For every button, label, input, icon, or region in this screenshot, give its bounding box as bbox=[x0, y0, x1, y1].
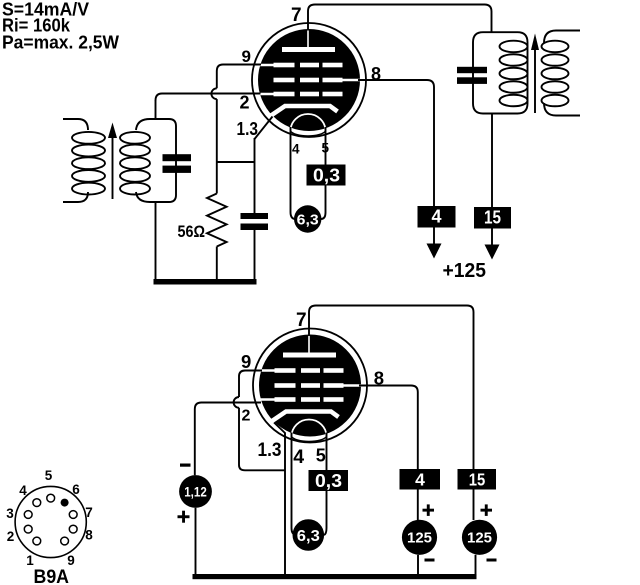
svg-text:2: 2 bbox=[242, 407, 251, 424]
wire hop over pin2 wire bbox=[211, 88, 216, 99]
svg-text:5: 5 bbox=[316, 446, 326, 466]
tube V1 anode (plate) and lead bbox=[307, 29, 309, 49]
wire grid tap to tank top bbox=[155, 100, 157, 120]
svg-text:Pa=max. 2,5W: Pa=max. 2,5W bbox=[2, 32, 119, 52]
minus sign battery 125 left bbox=[425, 559, 435, 562]
svg-text:15: 15 bbox=[469, 469, 486, 489]
B9A pin 1 circle bbox=[33, 537, 41, 545]
output tank capacitor bbox=[457, 67, 487, 73]
output secondary leads bbox=[544, 31, 580, 44]
battery circle 6,3 heater bbox=[294, 205, 321, 232]
svg-text:4: 4 bbox=[431, 207, 441, 227]
voltage box 4V screen bbox=[418, 206, 456, 228]
output secondary coil bbox=[542, 41, 569, 53]
B9A pin 8 circle bbox=[69, 525, 77, 533]
battery circle 1,12 grid bias bbox=[179, 475, 212, 508]
resistor 56 ohm bbox=[207, 194, 227, 247]
B9A pin 2 circle bbox=[24, 525, 32, 533]
svg-text:9: 9 bbox=[241, 351, 251, 372]
input transformer primary coil bbox=[63, 119, 88, 130]
B9A base outline circle bbox=[15, 486, 86, 557]
input tank capacitor bbox=[163, 154, 192, 161]
voltage box 0,3 bottom bbox=[309, 470, 349, 491]
output coupling arrow bbox=[534, 49, 536, 113]
ground rail top circuit bbox=[154, 279, 257, 285]
pentode tube V2 envelope bbox=[253, 329, 367, 443]
pentode tube V1 envelope bbox=[252, 23, 366, 137]
wire pin7 anode to output tank bbox=[308, 5, 492, 34]
svg-text:9: 9 bbox=[67, 553, 75, 568]
tube V2 anode (plate) and lead bbox=[308, 335, 310, 355]
wire hop bottom bbox=[234, 397, 239, 408]
tube V1 heater filament bbox=[291, 114, 326, 131]
wire pin8 screen bottom bbox=[359, 386, 418, 470]
minus sign battery 1,12 bbox=[180, 464, 191, 467]
wire pin2 grid bottom to battery 1,12 bbox=[195, 403, 261, 476]
svg-text:8: 8 bbox=[85, 528, 93, 543]
arrow to +125 left bbox=[433, 228, 435, 247]
output tank coil bbox=[500, 41, 528, 53]
svg-text:3: 3 bbox=[6, 506, 14, 521]
voltage box 0,3 heater bbox=[307, 165, 346, 186]
tube V2 heater filament bbox=[292, 420, 327, 437]
wire pin5 heater bbox=[321, 127, 326, 219]
svg-text:7: 7 bbox=[291, 5, 302, 26]
input tank secondary coil bbox=[120, 132, 150, 144]
svg-text:1: 1 bbox=[26, 553, 34, 568]
junction wire cathode to resistor top bbox=[216, 161, 255, 163]
svg-text:125: 125 bbox=[407, 531, 432, 547]
wire pin7 anode bottom bbox=[309, 306, 474, 470]
svg-text:0,3: 0,3 bbox=[313, 165, 340, 185]
svg-text:6,3: 6,3 bbox=[297, 528, 320, 545]
wire pin4 heater bottom bbox=[292, 433, 297, 536]
plus sign battery 125 right bbox=[481, 509, 493, 512]
svg-text:2: 2 bbox=[240, 93, 250, 113]
svg-text:125: 125 bbox=[467, 531, 492, 547]
tube V1 grids g1 g2 g3 (dashed rows) bbox=[274, 63, 295, 68]
wire pin4 heater bbox=[291, 127, 296, 219]
svg-text:6,3: 6,3 bbox=[297, 211, 319, 228]
wire pin2 grid to input tank bbox=[156, 94, 261, 101]
wire pin1.3 cathode bottom bbox=[274, 423, 285, 577]
B9A pin 9 circle bbox=[61, 537, 69, 545]
svg-text:6: 6 bbox=[72, 482, 80, 497]
svg-text:+125: +125 bbox=[443, 260, 487, 282]
wire pin9 grid3 to ground bbox=[217, 65, 261, 89]
plus sign battery 1,12 bbox=[178, 515, 190, 518]
wire tank bottom to ground rail bbox=[155, 202, 157, 280]
B9A pin 3 circle bbox=[24, 511, 32, 519]
svg-text:4: 4 bbox=[293, 446, 304, 468]
B9A pin 5 circle bbox=[47, 494, 55, 502]
tube V2 cathode bbox=[272, 412, 339, 422]
input transformer coupling arrow bbox=[112, 136, 114, 199]
input tank circuit loop bbox=[136, 119, 176, 202]
voltage box 15V bottom bbox=[458, 469, 497, 490]
svg-text:4: 4 bbox=[415, 469, 425, 489]
svg-text:15: 15 bbox=[484, 208, 501, 228]
plus sign battery 125 left bbox=[423, 509, 435, 512]
wire pin1.3 cathode diagonal bbox=[255, 117, 273, 140]
svg-text:9: 9 bbox=[242, 47, 251, 66]
minus sign battery 125 right bbox=[487, 559, 497, 562]
svg-text:56Ω: 56Ω bbox=[178, 222, 206, 241]
svg-text:1.3: 1.3 bbox=[258, 440, 282, 461]
voltage box 15V anode bbox=[474, 207, 511, 229]
wire pin8 screen grid bbox=[358, 80, 434, 207]
ground rail bottom circuit bbox=[193, 574, 477, 579]
svg-text:1.3: 1.3 bbox=[237, 119, 259, 139]
output tank circuit loop bbox=[473, 32, 528, 113]
svg-text:7: 7 bbox=[296, 310, 307, 331]
svg-text:B9A: B9A bbox=[34, 567, 70, 585]
svg-text:1,12: 1,12 bbox=[184, 484, 207, 499]
battery circle 125 right bbox=[462, 520, 497, 555]
B9A pin 6 circle bbox=[61, 499, 69, 507]
arrow to +125 right bbox=[491, 229, 493, 248]
svg-text:0,3: 0,3 bbox=[315, 471, 342, 491]
battery circle 6,3 bottom bbox=[293, 519, 325, 551]
B9A pin 4 circle bbox=[33, 499, 41, 507]
cathode bypass capacitor bbox=[241, 213, 269, 219]
tube V2 grids g1 g2 g3 (dashed rows) bbox=[275, 368, 296, 373]
tube V1 cathode bbox=[271, 106, 338, 116]
svg-text:4: 4 bbox=[292, 141, 300, 156]
wire pin5 heater bottom bbox=[326, 433, 328, 471]
voltage box 4V bottom bbox=[400, 469, 441, 490]
svg-text:2: 2 bbox=[7, 529, 15, 544]
svg-text:5: 5 bbox=[45, 468, 53, 483]
wire tank bottom to 15V label bbox=[491, 114, 493, 208]
svg-text:7: 7 bbox=[85, 505, 93, 520]
svg-text:4: 4 bbox=[19, 483, 27, 498]
B9A pin 7 circle bbox=[69, 511, 77, 519]
wire pin9 grid3 bottom bbox=[239, 371, 262, 398]
battery circle 125 left bbox=[402, 520, 437, 555]
